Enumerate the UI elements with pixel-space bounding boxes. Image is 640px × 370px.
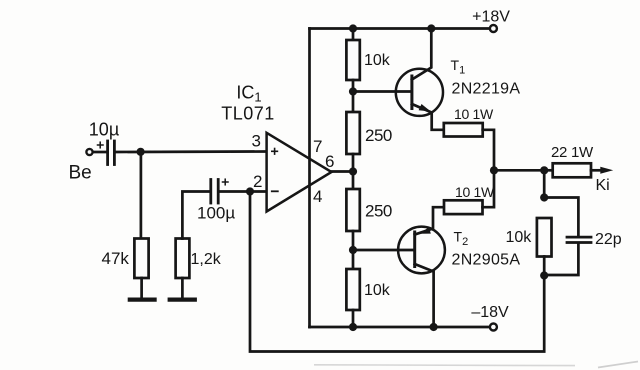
svg-text:10µ: 10µ (89, 120, 119, 140)
resistor R 1,2k (176, 239, 190, 279)
terminal -18V (490, 324, 497, 331)
wire: upper 10 1W to node F (483, 130, 494, 171)
svg-text:2N2219A: 2N2219A (452, 81, 521, 98)
wire: node F to node G (494, 169, 544, 172)
node D junction (T1 base net) (349, 87, 357, 95)
svg-text:4: 4 (313, 187, 322, 206)
resistor R 10 1W (lower) (444, 200, 483, 214)
T1 collector lead (412, 29, 431, 80)
T2 emitter arrow (PNP, points to base) (419, 227, 431, 233)
node C junction (op-amp output net) (349, 167, 357, 175)
wire: node G to R 22 1W (544, 169, 553, 172)
op-amp U1 TL071 triangle (267, 133, 332, 212)
wire: 250 to node C (352, 154, 355, 189)
svg-text:2: 2 (253, 172, 262, 191)
transistor Q T1 circle (396, 69, 443, 116)
svg-text:3: 3 (252, 132, 261, 151)
svg-text:TL071: TL071 (221, 104, 275, 124)
svg-text:Be: Be (69, 163, 92, 184)
resistor R 10k (feedback) (537, 218, 552, 257)
wire: 1,2k to ground (181, 278, 184, 298)
resistor R 47k (134, 239, 148, 279)
resistor R 10k (bottom) (346, 269, 359, 310)
resistor R 250 (lower) (346, 189, 359, 231)
node G junction (feedback/output) (540, 166, 548, 174)
wire: node D to T1 base (353, 90, 411, 93)
supply line: pin7/pin4 vertical from +rail to -rail (308, 29, 311, 328)
node I junction (R10k/C22p bottom) (540, 271, 548, 279)
svg-text:10k: 10k (364, 52, 391, 69)
resistor R 10k (top) (346, 40, 359, 80)
terminal +18V (490, 25, 497, 32)
node B junction (pin 2 net) (246, 187, 254, 195)
junction: chain top on +rail (349, 24, 357, 32)
svg-text:–18V: –18V (471, 304, 509, 321)
wire: terminal to C1 (93, 151, 106, 154)
junction: T1 collector on +rail (427, 24, 435, 32)
wire: 10k to node D (352, 80, 355, 112)
svg-text:7: 7 (313, 137, 322, 156)
T1 emitter arrow (419, 104, 431, 112)
T2 collector lead (415, 264, 434, 327)
wire: node A down to R 47k (140, 152, 143, 239)
wire: node G down to node H (543, 170, 546, 197)
wire: op-amp output pin 6 to node C (332, 170, 354, 173)
op-amp inverting - mark (272, 190, 278, 192)
resistor R 22 1W (553, 163, 591, 177)
wire: node E to T2 base (353, 249, 414, 252)
wire: 22 1W to Ki arrow (591, 169, 602, 172)
arrow Ki output (600, 167, 613, 174)
T2 emitter lead (415, 207, 444, 234)
capacitor C 22p (567, 236, 591, 239)
T1 emitter lead (412, 104, 444, 130)
capacitor C 10u (106, 141, 109, 165)
svg-text:250: 250 (365, 202, 392, 221)
node H junction (R10k/C22p top) (540, 193, 548, 201)
wire: C 22p to node I (544, 244, 578, 275)
wire: feedback return to node B (250, 192, 544, 352)
svg-text:+18V: +18V (472, 9, 510, 26)
wire: 1,2k up and to C 100u (182, 192, 209, 239)
svg-text:10 1W: 10 1W (454, 106, 494, 122)
node F junction (output net) (490, 166, 498, 174)
svg-text:22p: 22p (595, 231, 622, 248)
svg-text:250: 250 (365, 126, 392, 145)
wire: C 100u to inverting input node B (219, 190, 266, 193)
wire: node H to C 22p branch (544, 198, 578, 236)
svg-text:Ki: Ki (596, 177, 610, 194)
T2 base bar (413, 232, 416, 267)
wire: rail to R 10k top (352, 29, 355, 41)
T1 base bar (410, 76, 413, 109)
svg-text:2N2905A: 2N2905A (452, 252, 521, 269)
svg-text:10 1W: 10 1W (455, 184, 495, 200)
node A junction (137, 148, 145, 156)
ground (1,2k) (170, 298, 195, 302)
wire: lower 10 1W to node F (483, 170, 495, 207)
svg-text:47k: 47k (102, 249, 130, 268)
svg-text:100µ: 100µ (197, 204, 235, 223)
capacitor C 100u (209, 180, 212, 204)
svg-text:6: 6 (325, 152, 334, 171)
svg-text:1,2k: 1,2k (191, 251, 222, 268)
ground (47k) (130, 298, 155, 302)
resistor R 250 (upper) (346, 112, 359, 154)
input terminal Be (86, 149, 92, 155)
junction: T2 collector on -rail (430, 323, 438, 331)
wire: bottom rail -18V (310, 326, 490, 329)
junction: chain bottom on -rail (349, 323, 357, 331)
svg-text:22 1W: 22 1W (551, 144, 594, 161)
svg-text:10k: 10k (506, 229, 533, 246)
node E junction (T2 base net) (349, 246, 357, 254)
resistor R 10 1W (upper) (444, 123, 483, 137)
svg-text:10k: 10k (364, 282, 391, 299)
wire: C1 to node A (noninv input net) (116, 150, 267, 153)
wire: 47k to ground (140, 278, 143, 298)
transistor Q T2 circle (398, 227, 445, 274)
op-amp noninverting + mark (272, 149, 278, 155)
wire: 250 to node E (352, 231, 355, 269)
wire: top rail +18V (310, 27, 490, 30)
wire: 10k to -rail (352, 310, 355, 327)
